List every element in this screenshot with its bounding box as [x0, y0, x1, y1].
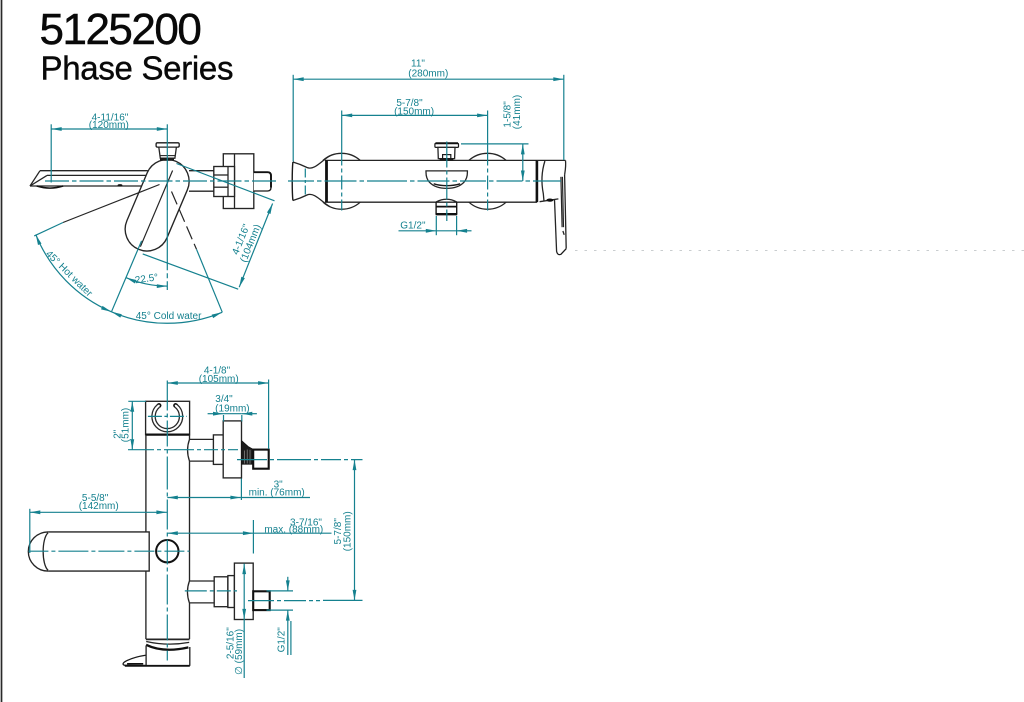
upper outlet dome	[188, 439, 190, 461]
outlet trumpet bottom curve	[293, 194, 330, 206]
knurl texture lines	[244, 450, 250, 464]
hook outer arc	[152, 405, 183, 432]
dimension G1/2 lower lower segment	[287, 610, 289, 655]
supply stub shoulder line	[436, 206, 457, 208]
lever slot dash	[563, 231, 564, 235]
dimension 3-7/16 max underline	[253, 532, 331, 534]
faint perforation dotted line	[575, 250, 1024, 252]
upper outlet pipe bottom	[190, 460, 214, 462]
dimension 3-7/16 max line	[167, 532, 253, 534]
svg-text:G1/2": G1/2"	[400, 221, 426, 232]
wall stub top shadow	[254, 172, 271, 187]
svg-text:(120mm): (120mm)	[89, 120, 129, 131]
left escutcheon top arc	[323, 153, 360, 160]
centerline horizontal view2	[288, 180, 561, 182]
outlet trumpet left lip	[291, 162, 294, 201]
lower outlet collar b	[228, 576, 235, 608]
cold limit ray black dashed	[172, 192, 197, 250]
centerline horizontal view1	[45, 180, 278, 182]
dimension 2-5/16 arrow up	[242, 564, 246, 575]
dimension 2 inch top extension	[128, 400, 146, 402]
svg-text:G1/2": G1/2"	[277, 627, 288, 653]
spout tip chamfer outer	[30, 171, 40, 186]
lower outlet dome	[187, 581, 189, 603]
holder bracket bottom thick line	[146, 434, 190, 436]
svg-text:(51mm): (51mm)	[120, 408, 131, 442]
dimension 4-1/16 extension upper	[177, 164, 275, 201]
dimension 5-5/8 line	[30, 511, 167, 513]
dimension 11 inch right extension	[563, 75, 565, 160]
outlet joint thick line	[325, 160, 328, 202]
cold water arc	[111, 312, 222, 323]
lower supply stub	[253, 591, 270, 610]
hook right curl	[174, 404, 177, 407]
spout tip chamfer inner	[30, 175, 47, 186]
lower stub centerline	[248, 600, 320, 602]
wall pipe top	[189, 170, 214, 172]
dimension 2-5/16 vertical line	[243, 564, 245, 678]
tube left edge upper	[145, 435, 147, 532]
knob stub centerline vertical	[446, 142, 448, 222]
lower outlet collar a	[214, 577, 228, 607]
tube right edge lower	[189, 603, 191, 639]
tube left edge lower	[145, 571, 147, 639]
hot cold boundary ray	[112, 241, 142, 312]
bell bottom line	[125, 665, 190, 667]
diverter knob cap view2	[435, 143, 459, 147]
lever bottom tip	[557, 249, 567, 255]
supply stub bottom	[436, 213, 457, 215]
handle cap right upper edge	[565, 160, 566, 175]
spout top edge	[40, 170, 148, 172]
diverter knob neck view2	[438, 147, 455, 158]
dimension G1/2 left extension	[435, 216, 437, 235]
dimension 4-1/8 line	[167, 382, 268, 384]
dimension 3/4 line middle	[224, 413, 242, 415]
body top line	[325, 159, 537, 161]
bell right side	[189, 647, 191, 666]
dimension 4-11/16 line	[51, 128, 167, 130]
lever right edge	[565, 175, 567, 249]
handle inner edge line	[140, 171, 172, 247]
tube right edge upper	[189, 435, 191, 440]
handle cap face curve	[542, 161, 545, 201]
escutcheon divider line	[234, 154, 236, 209]
outlet trumpet top curve	[293, 156, 330, 168]
diverter knob base band view1	[160, 158, 174, 161]
arc 22.5 degrees	[126, 278, 167, 287]
dimension 1-5/8 extension line	[461, 143, 529, 145]
lever left edge	[555, 200, 557, 252]
svg-text:Phase Series: Phase Series	[41, 50, 234, 87]
supply stub right side	[456, 202, 458, 215]
supply stub left side	[435, 202, 437, 215]
lower outlet flange	[234, 563, 253, 619]
diverter knob neck view1	[159, 147, 177, 158]
bell rim thick arc	[146, 645, 188, 650]
diverter knob neck line view1	[160, 155, 176, 157]
dimension 4-1/8 right extension	[268, 380, 270, 450]
lower stub bottom extension	[267, 609, 294, 611]
cold limit ray teal extension	[197, 249, 223, 312]
dimension 3/4 line left	[208, 413, 224, 415]
right escutcheon bottom arc	[469, 202, 506, 209]
handle capsule body	[118, 153, 195, 258]
lower stub top extension	[267, 590, 294, 592]
dimension 3/4 right extension	[241, 415, 243, 422]
dimension G1/2 line left	[399, 230, 437, 232]
supply stub dome	[436, 199, 457, 202]
svg-text:max. (88mm): max. (88mm)	[264, 524, 323, 535]
spout centerline view3	[28, 550, 189, 552]
diverter knob base band view2	[440, 159, 454, 161]
shower hook bowl inner arc	[434, 184, 461, 186]
foot spout outline	[123, 655, 146, 665]
dimension 5-7/8 bottom extension	[323, 599, 363, 601]
svg-text:min. (76mm): min. (76mm)	[249, 488, 305, 499]
foot inner line	[127, 663, 143, 665]
hot water arc	[36, 235, 112, 312]
upper outlet pipe top	[190, 438, 214, 440]
valve pivot vertical centerline	[166, 124, 168, 290]
svg-text:(150mm): (150mm)	[342, 511, 353, 551]
lever slot line a	[561, 177, 562, 227]
spout inner dome arc	[43, 533, 48, 571]
dimension 3/4 line right	[242, 413, 257, 415]
dimension 1-5/8 line	[522, 144, 524, 181]
shower hook bowl	[426, 171, 467, 189]
escutcheon flange plate	[223, 154, 254, 209]
lower outlet pipe bottom	[189, 602, 214, 604]
mounting nut	[214, 167, 235, 197]
dimension 11 inch line	[293, 78, 564, 80]
nut facet line upper	[214, 174, 228, 176]
dimension 4-1/16 line	[239, 204, 272, 288]
dimension 3 min line	[167, 497, 241, 499]
dimension G1/2 right extension	[456, 216, 458, 235]
dimension 3/4 left extension	[223, 415, 225, 422]
hook inner arc	[155, 407, 179, 428]
bell left side	[145, 646, 147, 666]
dimension 4-1/16 extension lower	[143, 254, 239, 289]
spout aerator arc	[37, 186, 64, 188]
spout outer dome	[28, 532, 48, 571]
G1/2 text underline vertical	[290, 621, 292, 655]
body right end thick line	[536, 160, 539, 202]
dimension G1/2 lower upper segment	[287, 577, 289, 591]
diverter knob cap top shadow	[436, 142, 459, 144]
spout body view3	[48, 532, 149, 571]
page left border line	[1, 0, 3, 702]
right escutcheon center mark	[487, 111, 489, 211]
hot limit ray black	[63, 185, 160, 223]
dimension 5-7/8 vertical line	[354, 460, 356, 601]
wall supply stub view1	[254, 172, 271, 191]
right escutcheon top arc	[469, 153, 506, 160]
handle cap top edge	[537, 159, 566, 161]
handle cap bottom edge	[540, 199, 559, 202]
dimension 5-7/8 line	[342, 114, 488, 116]
dimension 3 min underline	[241, 497, 310, 499]
tube bottom line	[146, 638, 190, 640]
dimension 11 inch left extension	[292, 75, 294, 162]
spout seam dot	[118, 184, 123, 186]
svg-text:(105mm): (105mm)	[199, 374, 239, 385]
diverter knob circle view3	[156, 540, 178, 562]
dimension 3 min extension	[240, 479, 242, 501]
dimension G1/2 line right	[457, 230, 472, 232]
lower outlet pipe top	[189, 580, 214, 582]
upper knurled connector	[242, 441, 253, 465]
upper square union	[253, 450, 269, 469]
holder bracket	[146, 401, 190, 434]
hook left curl	[157, 404, 160, 407]
dimension 3-7/16 extension	[252, 520, 254, 554]
svg-text:(280mm): (280mm)	[408, 68, 448, 79]
dimension 2 inch line	[131, 401, 133, 449]
upper union centerline	[237, 459, 363, 461]
bell rim thin arc	[146, 642, 189, 645]
svg-text:∅ (59mm): ∅ (59mm)	[234, 629, 245, 675]
svg-text:(41mm): (41mm)	[512, 95, 523, 129]
dimension G1/2 line middle	[436, 230, 456, 232]
hook center mark horizontal	[148, 415, 187, 417]
left escutcheon center mark	[341, 111, 343, 211]
left escutcheon bottom arc	[323, 202, 360, 209]
svg-text:(142mm): (142mm)	[79, 501, 119, 512]
upper pipe centerline	[128, 449, 238, 451]
svg-text:(150mm): (150mm)	[394, 107, 434, 118]
handle screw hole ellipse	[546, 199, 553, 202]
spout second edge	[47, 174, 146, 176]
dimension 5-5/8 extension	[29, 509, 31, 553]
outlet center mark	[304, 169, 306, 196]
svg-text:5125200: 5125200	[40, 5, 201, 54]
main vertical centerline view3	[166, 381, 168, 661]
hot limit ray teal extension	[34, 223, 63, 236]
dimension 2-5/16 arrow down	[242, 609, 246, 620]
nut inner vertical	[227, 167, 229, 197]
svg-text:(19mm): (19mm)	[215, 403, 249, 414]
upper outlet collar	[213, 435, 223, 465]
body bottom line	[325, 201, 537, 203]
tube right edge middle	[189, 461, 191, 581]
dimension 4-11/16 extension line	[50, 124, 52, 182]
wall pipe bottom	[189, 190, 214, 192]
lower pipe centerline	[185, 590, 237, 592]
nut facet line lower	[214, 186, 228, 188]
spout bottom edge	[30, 185, 146, 187]
upper outlet flange	[223, 421, 241, 478]
svg-text:45° Cold water: 45° Cold water	[136, 311, 202, 322]
diverter knob collar view2	[443, 155, 451, 159]
lever slot line b	[562, 177, 563, 227]
diverter knob cap view1	[156, 143, 179, 147]
